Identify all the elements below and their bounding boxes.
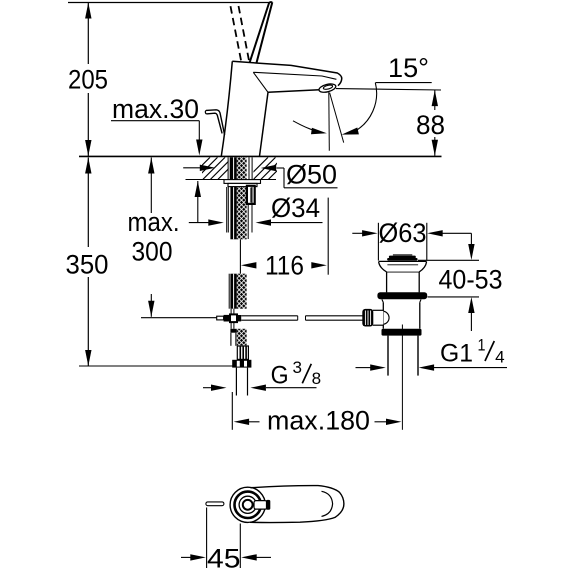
spout inner top line [253, 72, 336, 79]
lever top view: outline [250, 486, 344, 523]
15 deg underline [376, 82, 432, 84]
lower hose block 2 [230, 329, 236, 333]
G3/8 tail pipe [235, 368, 237, 396]
shank braid hose upper [230, 157, 236, 239]
svg-text:8: 8 [312, 370, 322, 388]
sleeve lines left [227, 157, 229, 179]
body left edge [221, 61, 232, 156]
lever boss circles [230, 487, 265, 522]
svg-text:Ø34: Ø34 [271, 193, 320, 223]
drain body bottom ring [382, 329, 422, 336]
body right edge below spout [260, 92, 269, 156]
drain plug cap [393, 254, 412, 256]
shank threaded crosshatch upper [237, 157, 247, 239]
88 top reference line [336, 89, 441, 90]
svg-text:45: 45 [207, 543, 241, 568]
dimension 88 [434, 90, 436, 110]
dimension 40-53 [470, 233, 472, 246]
350 bottom reference line [79, 365, 246, 367]
hose nipple striped [237, 346, 248, 359]
svg-text:max.30: max.30 [112, 94, 199, 124]
svg-text:Ø50: Ø50 [286, 160, 337, 190]
drain flange top [379, 260, 427, 262]
svg-text:88: 88 [416, 110, 445, 140]
lower hose block [228, 274, 230, 309]
spout underside line [268, 90, 320, 93]
15 deg arc left with arrow [293, 121, 324, 133]
rod upper segment [247, 204, 249, 239]
svg-text:1: 1 [478, 337, 486, 355]
mounting nut bar 1 [224, 180, 261, 184]
deck underside line right [253, 179, 276, 181]
side hook lever [206, 110, 225, 135]
dimension 350 vertical line [87, 158, 89, 248]
faucet body outline [232, 61, 341, 85]
Ø63 arrows [352, 232, 362, 234]
15 deg water stream vertical line [328, 92, 331, 151]
svg-text:G: G [271, 361, 289, 389]
deck hatch left [188, 157, 240, 179]
top extension line from handle tip [68, 2, 271, 4]
handle lever solid [250, 3, 270, 63]
max300 bottom ref / pop-up rod line [141, 317, 217, 319]
drain valve body [382, 303, 384, 329]
max.180 dimension [231, 392, 233, 430]
under seal taper [382, 299, 421, 302]
tailpipe [387, 336, 389, 376]
knurled knob [362, 309, 373, 327]
lever stub [254, 501, 267, 510]
deck hatch right [246, 157, 291, 179]
svg-text:max.: max. [128, 207, 180, 237]
drain neck [386, 272, 388, 292]
drain Ø63 extension lines [377, 223, 379, 261]
svg-text:116: 116 [265, 251, 304, 281]
deck mounting surface line [79, 155, 442, 157]
svg-text:40-53: 40-53 [439, 265, 503, 295]
aerator inner [323, 84, 333, 90]
handle lever dashed alternate [230, 3, 241, 61]
pull rod guide bracket [247, 186, 255, 204]
svg-text:max.180: max.180 [267, 406, 370, 436]
svg-text:4: 4 [495, 349, 505, 367]
sleeve lines right [248, 157, 250, 179]
deck underside line left [186, 179, 225, 181]
mounting nut bar 2 [228, 183, 257, 186]
pivot joint [230, 309, 232, 315]
drain seal ring [377, 292, 427, 299]
svg-text:3: 3 [293, 359, 303, 377]
lever top view: pin [206, 502, 224, 506]
svg-text:205: 205 [68, 64, 108, 94]
shank outline lines below nut [226, 187, 228, 233]
15 deg slanted stream line [330, 93, 344, 143]
spout facet line [253, 72, 268, 92]
deck underside arrow and Ø34 left leader [197, 181, 199, 223]
aerator outer [318, 82, 336, 93]
pull rod in gap [239, 240, 241, 274]
G1 1/4 arrows [356, 367, 372, 369]
dimension 205 vertical line [87, 3, 89, 65]
side port [374, 311, 384, 325]
drain centerline [401, 325, 403, 430]
dimension 45 [206, 508, 208, 568]
lever inner rim right [322, 491, 333, 516]
horizontal rod to drain [241, 315, 298, 317]
svg-text:Ø63: Ø63 [379, 218, 427, 248]
svg-text:300: 300 [132, 237, 173, 267]
svg-text:350: 350 [66, 249, 109, 279]
hex nut [232, 360, 251, 368]
G3/8 dimension arrows [203, 387, 212, 389]
15 deg arc right with arrow [353, 83, 376, 133]
svg-text:15°: 15° [388, 53, 429, 83]
svg-text:G1: G1 [440, 340, 473, 368]
dimension max.300 vertical line [150, 158, 152, 214]
